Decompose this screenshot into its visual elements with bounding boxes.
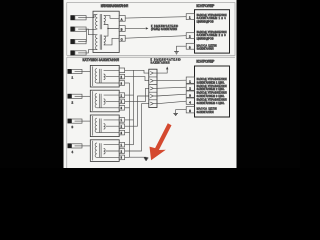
junction common node bbox=[107, 28, 108, 29]
svg-text:(РЕЛЕ) ЗАЖИГАНИЯ: (РЕЛЕ) ЗАЖИГАНИЯ bbox=[151, 28, 177, 31]
supply bus vertical bbox=[133, 70, 135, 144]
connector contact 4 bbox=[150, 94, 157, 97]
wire controller pin 3 to ground bbox=[177, 46, 187, 51]
wire pin B supply with arrow bbox=[125, 27, 145, 29]
wire cell5 to ctrl pin4 bbox=[157, 101, 186, 103]
module pin C bbox=[119, 35, 125, 41]
connector contact 1 bbox=[150, 72, 157, 75]
spark plug connector 4 (bottom) bbox=[68, 143, 83, 148]
ground (top diagram) bbox=[174, 52, 179, 54]
coil3 pin 2 bbox=[119, 124, 124, 129]
coil1 pin 1 bbox=[119, 68, 124, 73]
supply stub coil3 pin1 bbox=[125, 119, 134, 121]
svg-text:ЦИЛИНДРОВ: ЦИЛИНДРОВ bbox=[197, 20, 214, 23]
connector contact 3 bbox=[150, 87, 157, 90]
ground bus bottom run bbox=[130, 156, 147, 159]
ignition coil 1 box bbox=[90, 65, 119, 87]
harness connector block bbox=[149, 69, 157, 107]
wire T1 primary bottom to common node bbox=[104, 25, 119, 29]
connector contact 5 bbox=[150, 102, 157, 105]
wire ctrl pin5 to ground bbox=[176, 110, 187, 114]
wire cell4 to ctrl pin3 bbox=[157, 94, 186, 96]
red annotation arrow bbox=[150, 123, 172, 160]
wire coil2 pin2 to connector cell3 bbox=[125, 88, 149, 101]
svg-text:КОНТРОЛЛЕР: КОНТРОЛЛЕР bbox=[196, 4, 214, 8]
ground stub coil3 pin3 bbox=[125, 132, 130, 134]
wire coil3 pin2 to connector cell4 bbox=[125, 96, 149, 126]
controller pin 2 (top) bbox=[186, 33, 194, 39]
svg-text:С: С bbox=[121, 38, 123, 41]
coil1 pin 2 bbox=[119, 74, 124, 79]
connector contact 2 bbox=[150, 79, 157, 82]
controller pin 1 (bottom) bbox=[186, 77, 194, 83]
coil3 pin 3 bbox=[119, 130, 124, 135]
arrowhead supply (up) bbox=[166, 67, 168, 70]
module pin B bbox=[119, 26, 125, 32]
coil2 pin 3 bbox=[119, 106, 124, 111]
wire cell2 to ctrl pin1 bbox=[157, 79, 186, 82]
controller pin 3 (bottom) bbox=[186, 91, 194, 97]
svg-text:КАТУШКА ЗАЖИГАНИЯ: КАТУШКА ЗАЖИГАНИЯ bbox=[101, 4, 129, 8]
transformer T2 core bbox=[100, 35, 102, 50]
svg-text:КОНТРОЛЛЕР: КОНТРОЛЛЕР bbox=[196, 59, 214, 63]
controller box (bottom) bbox=[195, 66, 230, 117]
wire T1 primary top to pin A bbox=[104, 16, 119, 19]
svg-text:ЗАЖИГАНИЯ: ЗАЖИГАНИЯ bbox=[197, 48, 214, 51]
frame bottom diagram left line bbox=[66, 57, 68, 168]
svg-text:ЗАЖИГАНИЯ: ЗАЖИГАНИЯ bbox=[197, 111, 214, 114]
controller box (top) bbox=[195, 10, 230, 53]
transformer T1 secondary winding bbox=[95, 14, 97, 29]
spark plug connector 2 (top diagram) bbox=[70, 27, 86, 32]
ground bus vertical bbox=[129, 83, 131, 157]
coil2 pin 2 bbox=[119, 99, 124, 104]
wire cell3 to ctrl pin2 bbox=[157, 87, 186, 88]
wire plug4 to coil4 bbox=[82, 145, 90, 147]
spark plug connector 2 (bottom) bbox=[68, 94, 83, 99]
controller pin 1 (top) bbox=[186, 14, 194, 20]
wire pin A to controller pin 1 bbox=[125, 17, 186, 18]
svg-text:ЗАЖИГАНИЕМ 4 ЦИЛ.: ЗАЖИГАНИЕМ 4 ЦИЛ. bbox=[197, 102, 225, 105]
ground stub coil1 pin3 bbox=[125, 82, 130, 84]
coil3 pin 1 bbox=[119, 118, 124, 123]
svg-text:КАТУШКИ ЗАЖИГАНИЯ: КАТУШКИ ЗАЖИГАНИЯ bbox=[83, 58, 120, 62]
coil4 pin 3 bbox=[119, 155, 124, 160]
wire coil1 pin2 to connector cell2 bbox=[125, 77, 149, 81]
wire T2 primary top to common node bbox=[104, 29, 108, 37]
spark plug connector 3 (bottom) bbox=[68, 119, 83, 124]
ignition coil 3 box bbox=[90, 115, 119, 137]
ground stub coil2 pin3 bbox=[125, 107, 130, 109]
coil1 pin 3 bbox=[119, 81, 124, 86]
coil2 pin 1 bbox=[119, 93, 124, 98]
ignition coil 4 box bbox=[90, 140, 119, 162]
page background (scan) bbox=[64, 0, 237, 168]
controller pin 4 (bottom) bbox=[186, 98, 194, 104]
wire plug1 to coil1 bbox=[82, 71, 90, 73]
wire plug3 to module (jog up) bbox=[86, 29, 97, 41]
wire pin C to controller pin 2 bbox=[125, 36, 186, 39]
transformer T2 secondary winding bbox=[96, 35, 98, 50]
wire plug3 to coil3 bbox=[82, 120, 90, 122]
coil4 pin 2 bbox=[119, 149, 124, 154]
wire plug4 to module bbox=[86, 50, 97, 53]
ignition coil 2 box bbox=[90, 90, 119, 112]
supply stub coil4 pin1 bbox=[125, 144, 134, 146]
controller pin 5 (bottom) bbox=[186, 107, 194, 113]
svg-text:ЦИЛИНДРОВ: ЦИЛИНДРОВ bbox=[197, 37, 214, 40]
ground stub coil4 pin3 bbox=[125, 156, 130, 158]
spark plug connector 3 (top diagram) bbox=[70, 39, 86, 44]
ground (bottom controller) bbox=[173, 113, 178, 115]
controller pin 3 (top) bbox=[186, 43, 194, 49]
ground (bottom of coils) bbox=[144, 158, 148, 160]
transformer T1 primary winding bbox=[104, 16, 106, 25]
wire coil4 pin2 to connector cell5 bbox=[125, 104, 149, 151]
wire plug2 to module (jog down) bbox=[86, 29, 97, 35]
wire supply up arrow bbox=[157, 69, 167, 73]
frame bottom diagram top line bbox=[67, 56, 235, 58]
wire plug1 to module bbox=[86, 14, 97, 17]
module pin A bbox=[119, 15, 125, 21]
wire coil1 pin1 to connector cell1 bbox=[125, 70, 149, 73]
arrowhead supply (right) bbox=[146, 27, 149, 29]
transformer T1 core bbox=[100, 14, 102, 29]
svg-text:ЗАЖИГАНИЯ: ЗАЖИГАНИЯ bbox=[151, 62, 170, 65]
transformer T2 primary winding bbox=[104, 36, 106, 45]
wire plug2 to coil2 bbox=[82, 95, 90, 97]
frame top diagram bbox=[67, 3, 235, 56]
coil4 pin 1 bbox=[119, 142, 124, 147]
ignition coil module box bbox=[93, 11, 119, 52]
spark plug connector 4 (top diagram) bbox=[70, 50, 86, 55]
controller pin 2 (bottom) bbox=[186, 84, 194, 90]
supply stub coil2 pin1 bbox=[125, 94, 134, 96]
spark plug connector 1 (bottom) bbox=[68, 69, 83, 74]
wire T2 primary bottom to pin C bbox=[104, 38, 119, 45]
spark plug connector 1 (top diagram) bbox=[70, 15, 86, 20]
